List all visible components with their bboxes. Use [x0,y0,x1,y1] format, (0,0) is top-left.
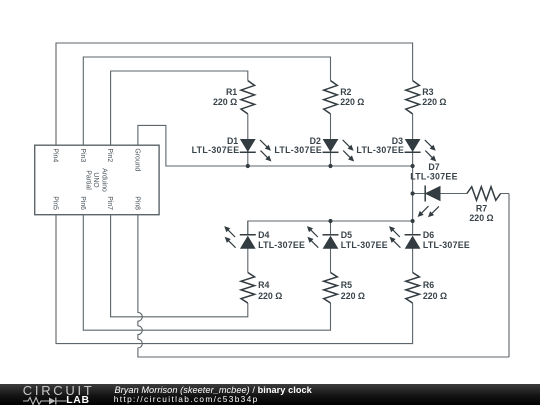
svg-text:220 Ω: 220 Ω [422,97,446,107]
svg-text:LTL-307EE: LTL-307EE [274,145,322,155]
svg-text:Ground: Ground [134,148,141,171]
svg-text:220 Ω: 220 Ω [340,97,364,107]
svg-text:LTL-307EE: LTL-307EE [258,240,305,250]
svg-text:R3: R3 [422,87,433,97]
svg-text:220 Ω: 220 Ω [341,291,365,301]
svg-text:LTL-307EE: LTL-307EE [423,240,470,250]
svg-text:Pin7: Pin7 [106,196,113,210]
svg-text:R7: R7 [476,204,487,214]
svg-text:220 Ω: 220 Ω [258,291,282,301]
svg-text:Pin3: Pin3 [79,148,86,162]
svg-text:UNO: UNO [92,172,99,188]
svg-text:R5: R5 [341,280,352,290]
svg-text:220 Ω: 220 Ω [213,97,237,107]
svg-text:Pin5: Pin5 [52,196,59,210]
svg-text:R6: R6 [423,280,434,290]
svg-text:LTL-307EE: LTL-307EE [341,240,388,250]
svg-text:Pin4: Pin4 [52,148,59,162]
svg-text:LTL-307EE: LTL-307EE [356,145,404,155]
svg-text:R2: R2 [340,87,351,97]
svg-text:220 Ω: 220 Ω [469,213,493,223]
svg-text:D6: D6 [423,230,434,240]
svg-text:Pin8: Pin8 [134,196,141,210]
svg-text:Partial: Partial [85,170,92,190]
svg-text:220 Ω: 220 Ω [423,291,447,301]
svg-text:Arduino: Arduino [101,168,108,192]
svg-text:D5: D5 [341,230,352,240]
svg-text:Pin2: Pin2 [106,148,113,162]
svg-text:D4: D4 [258,230,269,240]
svg-text:LTL-307EE: LTL-307EE [410,172,458,182]
svg-text:D7: D7 [428,162,439,172]
svg-text:Pin6: Pin6 [79,196,86,210]
svg-text:R1: R1 [226,87,237,97]
svg-text:R4: R4 [258,280,269,290]
svg-text:LTL-307EE: LTL-307EE [192,145,240,155]
